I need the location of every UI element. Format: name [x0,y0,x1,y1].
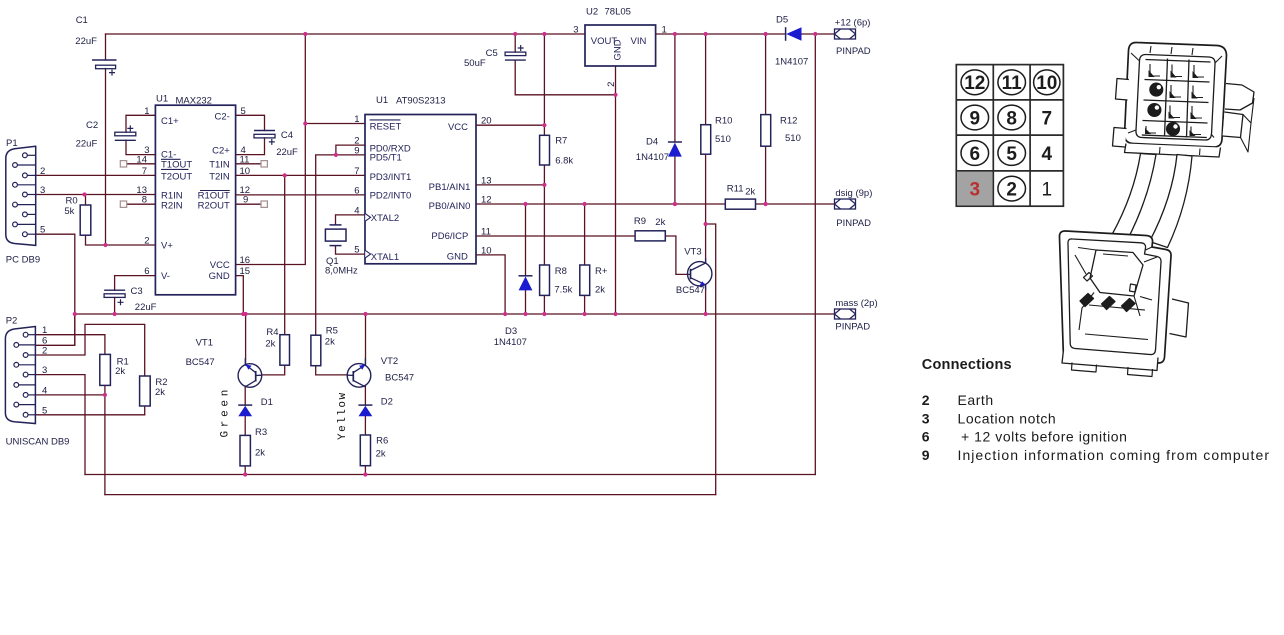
svg-text:9: 9 [243,195,248,206]
diode D4 1N4107 cathode bar [668,141,682,143]
cavity bevel marks row2 [1171,85,1203,98]
cable strap left [1112,154,1157,241]
connector top housing bottom skirt [1125,144,1221,158]
circle pin 8 [998,105,1026,130]
circle pin 10 [1034,70,1060,95]
wire VT3 collector vertical [705,224,707,262]
pin name C1- underline [161,158,181,160]
junction +12 rail / R10 [704,32,708,36]
wire P2 pin2 up and over to R2 [35,324,144,376]
wire C5 bottom lead to U2 GND node [515,60,615,95]
connector bottom housing outer body [1059,231,1171,363]
junction P2 pin4 / R1 [103,393,107,397]
svg-text:2k: 2k [255,448,265,459]
wire C1 top lead [105,34,107,60]
PINPAD +12 (6p) symbol [835,29,856,39]
circle pin 6 [961,141,989,166]
junction ground rail / R8 [542,312,546,316]
junction V+ / C1 [103,243,107,247]
resistor R7 6.8k [540,135,550,165]
svg-text:9: 9 [970,108,981,129]
svg-text:T2IN: T2IN [209,172,230,183]
transistor VT2 BC547 body circle [347,364,371,388]
capacitor C5 50uF slab electrode [505,52,526,56]
open pin square MAX232 pin14 [120,161,126,167]
svg-text:13: 13 [481,175,492,186]
P2 pin 1 [28,334,35,336]
PINPAD mass (2p) symbol [835,309,856,319]
wire AT90 PD5/T1 pin9 to R5 column [316,155,365,335]
svg-text:C1: C1 [76,15,88,26]
resistor R11 2k horizontal [725,199,755,209]
resistor R10 510 [701,125,711,155]
wire MAX232 pin1 C1+ to C2 [126,115,155,132]
open pin square MAX232 pin8 [120,201,126,207]
svg-text:7: 7 [354,166,359,177]
svg-text:R0: R0 [66,196,78,207]
circle pin 5 [998,141,1026,166]
svg-text:Injection information coming f: Injection information coming from comput… [958,447,1271,463]
svg-text:9: 9 [354,145,359,156]
P1 pin 9 [17,223,35,225]
svg-text:22uF: 22uF [135,302,157,313]
svg-text:mass (2p): mass (2p) [835,298,877,309]
wire R3 bottom to rail A [244,466,246,475]
junction +12 rail / riser to rail A [813,32,817,36]
connector bottom housing inner ring [1068,239,1161,355]
junction +5V rail / vertical A [303,32,307,36]
svg-text:8: 8 [1006,108,1017,129]
P1 pin 4 [27,213,35,215]
transistor VT3 emitter lead with arrow [691,278,706,290]
open pin square MAX232 pin11 [261,161,267,167]
connector top housing inner face ring [1136,54,1215,140]
wire R12 bottom to dsig net [765,146,767,204]
svg-text:1N4107: 1N4107 [775,57,808,68]
junction ground rail / P1 pin5 riser [73,312,77,316]
svg-text:VT1: VT1 [196,337,213,348]
svg-text:VT3: VT3 [684,246,701,257]
junction rail A / R3 [243,472,247,476]
svg-text:7: 7 [142,166,147,177]
svg-text:3: 3 [922,410,930,426]
wire +5V branch down to MAX232 VCC pin16 (vertical A) [236,34,306,265]
svg-text:5: 5 [354,245,359,256]
connector pin circle A [1150,83,1163,96]
op-amp U1 MAX232 body [155,105,235,295]
junction rail A / R6 [363,472,367,476]
svg-text:R7: R7 [555,135,567,146]
svg-text:AT90S2313: AT90S2313 [396,96,445,107]
svg-text:R2OUT: R2OUT [198,200,230,211]
svg-text:D1: D1 [261,397,273,408]
P2 pin 9 [19,404,36,406]
resistor R2 2k [140,376,151,406]
wire R10 top from +12 rail [705,34,707,125]
wire R7 bottom to PB1/AIN1 pin13 node and down to R8 [543,165,545,265]
wire C1 bottom lead down to V+ node [105,69,107,246]
svg-text:dsig (9p): dsig (9p) [835,188,872,199]
wire ground rail to mass PINPAD [75,313,835,315]
cable strap right [1150,155,1193,248]
wire MAX232 pin14 T1OUT stub [127,163,156,165]
wire +12 rail from U2 VIN pin1 to D5 cathode [656,33,786,35]
wire +12 node down to uniscan rail A [814,34,816,475]
svg-text:14: 14 [136,154,147,165]
wire rail B (P2 pin1/pin4 net) [105,494,716,496]
cavity bevel marks row4 [1146,126,1201,135]
resistor R+ 2k [580,265,590,295]
transistor VT2 base bar [352,371,354,382]
resistor R8 7.5k [540,265,550,295]
svg-text:VIN: VIN [631,36,647,47]
svg-text:12: 12 [481,195,492,206]
svg-text:C2+: C2+ [212,146,230,157]
P1 pin 5 [27,233,35,235]
wire R8 bottom to ground rail [543,295,545,314]
P1 pin 1 [27,154,35,156]
connector pin circle C [1167,122,1180,135]
junction ground rail / U2 GND column [613,312,617,316]
svg-text:11: 11 [1002,73,1023,94]
svg-text:2k: 2k [155,387,165,398]
junction +5V rail / R7 column [542,32,546,36]
transistor VT1 BC547 body circle [238,364,262,388]
svg-text:BC547: BC547 [186,357,215,368]
junction ground rail / C3 [113,312,117,316]
P2 pin 8 [19,384,36,386]
capacitor C4 slab electrode [254,134,275,138]
wire R5 bottom to VT2 base [316,366,348,375]
svg-text:3: 3 [42,365,47,376]
resistor R3 2k [240,435,250,466]
svg-text:3: 3 [40,185,45,196]
wire P1 pin5 down to ground rail and P2 pin6 [35,234,74,345]
table cell 3 gray background [957,172,992,205]
svg-text:U1: U1 [156,94,168,105]
top housing interior detail lines [1128,53,1222,138]
junction ground rail / AT90 GND [503,312,507,316]
svg-text:C5: C5 [486,48,498,59]
svg-text:1N4107: 1N4107 [494,337,527,348]
pin mark XTAL1 [365,250,370,258]
capacitor C5 plus sign [518,45,524,51]
svg-text:R5: R5 [326,326,338,337]
resistor R9 2k horizontal [635,231,665,241]
connector pin circle B [1148,104,1161,117]
svg-text:R9: R9 [634,216,646,227]
wire rail A (P2 pin3 net) [85,474,815,476]
wire MAX232 pin11 T1IN stub [236,163,261,165]
connector top housing left tab upper [1116,79,1129,101]
svg-text:4: 4 [42,385,47,396]
svg-text:2: 2 [606,82,617,87]
junction dsig / D4 anode [673,202,677,206]
svg-text:8: 8 [142,195,147,206]
svg-text:6: 6 [970,144,981,165]
junction T2IN / R4 column [283,173,287,177]
junction ground rail / VT3 emitter [704,312,708,316]
wire P2 pin6 riser handled with P1 pin5 [74,314,76,345]
svg-text:2k: 2k [376,448,386,459]
wire C4 bottom to MAX232 pin4 C2+ [236,138,265,155]
wire +5V branch to AT90 VCC pin20 and R7 [543,34,545,135]
resistor R0 5k [80,205,91,235]
P2 pin 7 [19,364,36,366]
bottom housing small stub pin [1084,273,1093,282]
svg-text:+12 (6p): +12 (6p) [835,18,871,29]
junction ground rail / D3 anode [523,312,527,316]
junction vertical A / RESET [303,121,307,125]
svg-text:R4: R4 [266,327,278,338]
cavity bevel marks row1 [1150,64,1204,77]
wire D1 to R3 [244,416,246,435]
connector P2 DB9 body [5,327,35,424]
junction R1IN / R0 [82,192,86,196]
svg-text:R+: R+ [595,266,608,277]
transistor VT3 base bar [690,269,692,280]
svg-text:2k: 2k [265,338,275,349]
svg-text:R2IN: R2IN [161,200,183,211]
svg-text:RESET: RESET [370,122,402,133]
circle pin 2 [998,176,1026,201]
circle pin 12 [961,70,989,95]
junction ground rail / VT1 emitter [244,312,248,316]
svg-text:6: 6 [144,266,149,277]
wire R+ top to dsig net [584,204,586,265]
svg-text:22uF: 22uF [76,139,98,150]
svg-text:PINPAD: PINPAD [836,218,871,229]
svg-text:1: 1 [144,106,149,117]
wire PB0/AIN0 pin12 dsig net to R11 [476,203,725,205]
svg-text:V-: V- [161,271,170,282]
wire P2 pin1 to R1 top [35,335,105,355]
transistor VT1 base lead inside [256,374,262,376]
svg-text:BC547: BC547 [385,373,414,384]
transistor VT3 collector lead [691,258,706,271]
svg-text:15: 15 [240,266,251,277]
wire VT1 emitter to ground rail [245,314,247,365]
wire T2IN node down to R4 [284,175,286,334]
svg-text:16: 16 [240,255,251,266]
svg-text:1: 1 [1042,180,1053,201]
regulator U2 78L05 body [585,25,656,66]
junction PD5 / PD0 tie [334,153,338,157]
wire AT90S2313 VCC pin20 [476,124,544,126]
capacitor C3 22uF thin plate [104,289,125,291]
svg-text:U2: U2 [586,7,598,18]
wire VT1 collector to D1 [244,386,246,405]
wire R0 top to R1IN net [85,195,87,206]
svg-text:D5: D5 [776,15,788,26]
junction dsig / R+ [583,202,587,206]
svg-text:2k: 2k [745,187,755,198]
LED D1 triangle [238,406,252,417]
wire P1 pin2 to MAX232 T2OUT pin7 [36,174,156,176]
svg-text:2k: 2k [655,217,665,228]
table circles around pin numbers [961,70,1060,201]
top housing latch slot marks [1150,46,1200,155]
svg-text:11: 11 [481,227,491,238]
svg-text:3: 3 [970,180,981,201]
svg-text:PD5/T1: PD5/T1 [370,152,402,163]
wire R+ bottom to ground rail [584,295,586,314]
capacitor C3 slab electrode [104,294,125,298]
svg-text:+ 12 volts before ignition: + 12 volts before ignition [961,429,1127,445]
wire +5V top rail from C1 to U2 VOUT pin3 [106,33,586,35]
wire VT2 collector to D2 [364,386,366,405]
capacitor C2 thin plate [115,139,136,141]
svg-text:VCC: VCC [448,122,468,133]
svg-text:VT2: VT2 [381,356,398,367]
junction dsig / R11 right [764,202,768,206]
P1 pin 3 [27,194,35,196]
capacitor C1 22uF polarized: thin plate [92,59,117,61]
wire P1 pin3 to MAX232 R1IN pin13 [36,194,156,196]
cavity shadow wedges [1145,70,1199,136]
capacitor C2 22uF slab electrode [115,132,136,136]
wire D3 cathode up to dsig net [525,204,527,276]
wire crystal to XTAL1 pin5 [336,246,366,255]
svg-text:10: 10 [481,245,492,256]
transistor VT2 emitter lead with arrow [353,358,365,373]
junction C5 / U2 GND [613,93,617,97]
svg-text:PINPAD: PINPAD [836,46,871,57]
svg-text:UNISCAN DB9: UNISCAN DB9 [6,437,70,448]
svg-text:1: 1 [662,25,667,36]
junction dsig / D3 [523,202,527,206]
svg-text:C2: C2 [86,120,98,131]
LED D1 cathode bar [238,404,252,406]
transistor VT2 base lead inside [347,374,353,376]
junction ground rail / MAX232 GND [241,312,245,316]
svg-text:C4: C4 [281,130,293,141]
resistor R1 2k [100,354,111,385]
svg-text:P2: P2 [6,316,18,327]
wire D4 column from +12 rail to cathode bar [674,34,676,142]
svg-text:C3: C3 [131,286,143,297]
LED D2 cathode bar [358,404,372,406]
wire MAX232 V- pin6 to C3 [115,276,156,291]
wire MAX232 T2IN pin10 to AT90 PD3/INT1 pin7 [236,174,365,176]
wire D3 anode to ground rail [525,290,527,314]
svg-text:V+: V+ [161,241,173,252]
svg-text:2k: 2k [325,336,335,347]
transistor VT3 BC547 body circle [688,262,712,286]
svg-text:10: 10 [240,166,251,177]
wire R1 bottom through pin4 node down to rail B [104,385,106,494]
wire D5 anode to +12 PINPAD [802,33,835,35]
svg-text:6.8k: 6.8k [555,156,573,167]
wire VT3 emitter to ground rail [705,286,707,314]
svg-text:R8: R8 [555,266,567,277]
capacitor C4 22uF thin plate [254,130,275,132]
svg-text:5: 5 [42,405,47,416]
wire C5 top lead from rail [514,34,516,52]
svg-text:PD3/INT1: PD3/INT1 [370,172,412,183]
connector top housing right tab upper [1225,84,1254,111]
wire R2 bottom to pin5 net [144,406,146,415]
connector top housing right tab lower [1223,112,1244,138]
transistor VT2 collector lead [353,381,365,387]
svg-text:6: 6 [922,429,930,445]
P1 pin 2 [27,174,35,176]
svg-text:R10: R10 [715,116,732,127]
svg-text:2: 2 [42,346,47,357]
resistor R6 2k [360,435,370,466]
transistor VT1 collector lead [245,381,256,387]
cavity bevel marks row3 [1170,106,1202,119]
wire P2 pin3 down to rail A [35,375,85,475]
svg-text:D4: D4 [646,137,658,148]
connector pin cavity grid horizontals [1142,60,1211,138]
wire MAX232 pin9 R2OUT stub [236,203,261,205]
P2 pin 3 [28,374,35,376]
junction dsig / R12 bottom [764,202,768,206]
P2 pin 5 [28,414,35,416]
svg-text:9: 9 [922,447,930,463]
wire R10 bottom down to VT3 collector node [705,154,707,224]
svg-text:T1IN: T1IN [209,160,230,171]
pin grid table frame [956,65,1063,207]
resistor R5 2k [311,335,321,366]
junction ground rail / R+ [583,312,587,316]
svg-text:4: 4 [354,205,359,216]
svg-text:5: 5 [1006,144,1017,165]
open pin square MAX232 pin9 [261,201,267,207]
svg-text:5k: 5k [64,206,74,217]
wire R9 right to VT3 base [665,236,687,274]
wire R6 bottom to rail A [364,466,366,475]
wire AT90S2313 PB1/AIN1 pin13 [476,184,544,186]
capacitor C2 plus sign [127,125,133,131]
bottom housing blade pin 2 [1102,297,1116,310]
svg-text:12: 12 [964,73,985,94]
svg-text:VCC: VCC [210,260,230,271]
svg-text:7: 7 [1042,108,1053,129]
P1 pin 7 [17,184,35,186]
P2 pin 4 [28,394,35,396]
svg-text:50uF: 50uF [464,58,486,69]
wire P2 pin5 to R2 bottom [35,414,144,416]
circle pin 9 [961,105,989,130]
svg-text:2: 2 [922,392,930,408]
diode D3 1N4107 cathode bar [519,275,533,277]
connector top housing left tab lower [1113,128,1127,148]
svg-text:C2-: C2- [214,112,229,123]
svg-text:R11: R11 [727,184,744,195]
capacitor C1 slab electrode [96,65,116,69]
svg-text:PB0/AIN0: PB0/AIN0 [429,201,471,212]
wire MAX232 pin8 R2IN stub [127,203,156,205]
P1 pin 6 [17,164,35,166]
svg-text:4: 4 [1042,144,1053,165]
svg-text:T2OUT: T2OUT [161,172,192,183]
wire C3 bottom to ground rail [114,298,116,315]
svg-text:3: 3 [573,25,578,36]
svg-text:5: 5 [40,225,45,236]
wire AT90 PD0/RXD pin2 [336,145,365,155]
junction +12 rail / D4 [673,32,677,36]
wire R12 top from +12 rail [765,34,767,115]
svg-text:2k: 2k [115,366,125,377]
bottom housing right flap [1170,299,1189,337]
svg-text:BC547: BC547 [676,285,705,296]
svg-text:C1+: C1+ [161,116,179,127]
junction R11 left / dsig [673,202,677,206]
svg-text:78L05: 78L05 [605,7,631,18]
P2 pin 6 [19,344,36,346]
